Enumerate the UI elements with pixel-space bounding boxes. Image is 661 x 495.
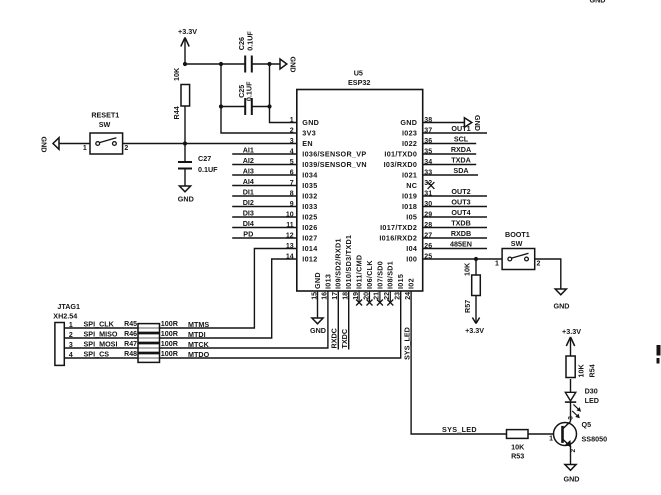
resistor R57 10K xyxy=(475,259,477,275)
IC U5 ESP32 body xyxy=(297,90,423,292)
clipped text at right edge xyxy=(657,345,661,356)
svg-text:SS8050: SS8050 xyxy=(582,435,608,444)
wires AI1-PD to pins 4-12 xyxy=(232,153,297,155)
junction R57 top xyxy=(474,257,478,261)
svg-text:R54: R54 xyxy=(588,364,597,377)
svg-text:I013: I013 xyxy=(323,274,332,289)
wire/net OUT3 xyxy=(423,206,487,208)
GND flag (pin 38) xyxy=(464,118,471,128)
svg-text:AI3: AI3 xyxy=(243,166,254,175)
svg-text:BOOT1: BOOT1 xyxy=(505,230,530,239)
wire 3V3 branch xyxy=(221,64,297,133)
svg-text:0.1UF: 0.1UF xyxy=(245,81,254,101)
svg-text:1: 1 xyxy=(290,117,294,124)
resistors R45-R48 100R xyxy=(138,324,160,333)
wire pin25 I00 to BOOT1 xyxy=(423,258,502,260)
svg-text:LED: LED xyxy=(585,396,599,405)
svg-text:PD: PD xyxy=(243,229,253,238)
svg-text:AI1: AI1 xyxy=(243,145,254,154)
switch RESET1 SW xyxy=(90,133,123,154)
wire C27 to GND xyxy=(184,169,186,187)
svg-text:485EN: 485EN xyxy=(450,240,472,249)
junction R44 top xyxy=(183,62,187,66)
wire pin18 net TXDC xyxy=(348,291,350,350)
svg-text:I019: I019 xyxy=(402,191,417,200)
svg-text:I010/SD3/TXD1: I010/SD3/TXD1 xyxy=(344,235,353,289)
svg-text:GND: GND xyxy=(178,195,194,204)
svg-text:U5: U5 xyxy=(354,69,363,78)
no-connect X pin 32 xyxy=(428,182,435,189)
switch BOOT1 SW xyxy=(502,249,535,270)
wire pin38 to GND flag xyxy=(423,122,465,124)
svg-text:1: 1 xyxy=(83,145,87,152)
svg-text:+3.3V: +3.3V xyxy=(562,327,581,336)
svg-text:2: 2 xyxy=(290,127,294,134)
svg-text:R53: R53 xyxy=(511,451,524,460)
wire/net RXDA xyxy=(423,153,477,155)
svg-text:I011/CMD: I011/CMD xyxy=(355,255,364,289)
GND flag (top caps) xyxy=(280,59,287,69)
svg-text:SW: SW xyxy=(511,239,523,248)
wire C26 right to GND flag node xyxy=(252,63,280,65)
svg-text:R45: R45 xyxy=(124,321,137,328)
svg-text:R47: R47 xyxy=(124,341,137,348)
svg-text:SPI_MOSI: SPI_MOSI xyxy=(84,340,118,349)
wire GND flag to RESET1 xyxy=(59,143,90,145)
svg-text:AI4: AI4 xyxy=(243,177,254,186)
svg-text:1: 1 xyxy=(549,436,553,443)
wire pin24 SYS_LED xyxy=(411,291,506,434)
svg-text:I027: I027 xyxy=(302,233,317,242)
capacitor C27 xyxy=(178,161,192,163)
ground (C27) xyxy=(179,186,190,192)
svg-text:SPI_CLK: SPI_CLK xyxy=(84,320,115,329)
wire/net RXDB xyxy=(423,237,487,239)
LED D30 xyxy=(565,392,576,401)
svg-text:I06/CLK: I06/CLK xyxy=(365,260,374,289)
svg-text:2: 2 xyxy=(537,261,541,268)
svg-text:100R: 100R xyxy=(161,319,179,328)
svg-text:I021: I021 xyxy=(402,170,417,179)
svg-text:I033: I033 xyxy=(302,202,317,211)
no-connect X pins 19-22 xyxy=(358,291,360,303)
svg-text:SYS_LED: SYS_LED xyxy=(403,327,412,360)
svg-text:JTAG1: JTAG1 xyxy=(57,302,80,311)
svg-text:0.1UF: 0.1UF xyxy=(198,165,218,174)
svg-text:100R: 100R xyxy=(161,339,179,348)
svg-text:I014: I014 xyxy=(302,244,317,253)
svg-text:TXDB: TXDB xyxy=(451,219,471,228)
svg-text:XH2.54: XH2.54 xyxy=(53,312,77,321)
wire/net 485EN xyxy=(423,248,487,250)
svg-text:SYS_LED: SYS_LED xyxy=(442,425,477,434)
svg-text:GND: GND xyxy=(590,0,606,5)
svg-text:SW: SW xyxy=(99,120,111,129)
svg-text:10K: 10K xyxy=(462,262,471,276)
svg-text:TXDA: TXDA xyxy=(451,156,471,165)
svg-text:D30: D30 xyxy=(585,387,598,396)
svg-text:R57: R57 xyxy=(463,300,472,313)
svg-text:10K: 10K xyxy=(511,443,525,452)
wire Q5 collector to D30 xyxy=(570,402,572,421)
svg-text:EN: EN xyxy=(302,139,313,148)
svg-text:I039/SENSOR_VN: I039/SENSOR_VN xyxy=(302,160,367,169)
svg-text:I034: I034 xyxy=(302,170,317,179)
svg-text:I09/SD2/RXD1: I09/SD2/RXD1 xyxy=(334,238,343,289)
svg-text:100R: 100R xyxy=(161,329,179,338)
svg-text:SPI_CS: SPI_CS xyxy=(84,350,110,359)
wire R44 to EN line xyxy=(184,106,186,162)
svg-text:GND: GND xyxy=(313,272,322,289)
svg-text:I05: I05 xyxy=(406,212,417,221)
svg-text:I026: I026 xyxy=(302,223,317,232)
junction EN/R44/C27 xyxy=(183,141,187,145)
ground (pin15) xyxy=(312,318,323,324)
svg-text:RXDB: RXDB xyxy=(451,229,471,238)
svg-text:I022: I022 xyxy=(402,139,417,148)
svg-text:I00: I00 xyxy=(406,254,417,263)
svg-text:I017/TXD2: I017/TXD2 xyxy=(380,223,417,232)
svg-text:I03/RXD0: I03/RXD0 xyxy=(384,160,418,169)
wire MTDI to pin14 xyxy=(64,259,296,338)
junction C25/3V3 branch top xyxy=(219,62,223,66)
svg-text:GND: GND xyxy=(310,326,326,335)
svg-text:I025: I025 xyxy=(302,212,317,221)
wire pin17 net RXDC xyxy=(337,291,339,350)
wire +3.3V node horizontal xyxy=(185,63,245,65)
svg-text:10K: 10K xyxy=(172,67,181,81)
svg-text:DI3: DI3 xyxy=(243,208,254,217)
svg-text:GND: GND xyxy=(302,118,319,127)
wire Q5 emitter to GND xyxy=(570,447,572,465)
svg-text:C27: C27 xyxy=(198,154,211,163)
wire/net OUT2 xyxy=(423,195,487,197)
svg-text:GND: GND xyxy=(473,115,482,131)
svg-text:10K: 10K xyxy=(577,364,586,378)
svg-text:I018: I018 xyxy=(402,202,417,211)
ground (BOOT1) xyxy=(555,289,566,295)
svg-text:R44: R44 xyxy=(172,106,181,119)
svg-text:RXDA: RXDA xyxy=(451,145,471,154)
svg-text:I08/SD1: I08/SD1 xyxy=(386,261,395,289)
transistor Q5 SS8050 xyxy=(554,423,577,446)
wire/net SDA xyxy=(423,174,478,176)
svg-text:OUT2: OUT2 xyxy=(451,187,470,196)
svg-text:I032: I032 xyxy=(302,191,317,200)
svg-text:DI1: DI1 xyxy=(243,187,254,196)
wire/net TXDB xyxy=(423,227,487,229)
svg-text:RESET1: RESET1 xyxy=(91,111,119,120)
svg-text:2: 2 xyxy=(124,145,128,152)
svg-text:TXDC: TXDC xyxy=(340,329,349,349)
svg-text:SDA: SDA xyxy=(453,166,468,175)
wire pin15 to GND xyxy=(317,291,319,318)
svg-text:I04: I04 xyxy=(406,244,417,253)
svg-text:GND: GND xyxy=(564,475,580,484)
svg-text:1: 1 xyxy=(495,261,499,268)
ground (Q5) xyxy=(565,465,576,471)
svg-text:GND: GND xyxy=(289,57,298,73)
svg-text:DI4: DI4 xyxy=(243,219,254,228)
svg-text:0.1UF: 0.1UF xyxy=(245,31,254,51)
resistor R54 10K xyxy=(566,356,575,378)
wire/net OUT4 xyxy=(423,216,487,218)
svg-text:SPI_MISO: SPI_MISO xyxy=(84,330,118,339)
svg-text:I07/SD0: I07/SD0 xyxy=(375,261,384,289)
svg-text:R46: R46 xyxy=(124,331,137,338)
resistor R44 10K xyxy=(181,85,190,107)
svg-text:AI2: AI2 xyxy=(243,156,254,165)
svg-text:100R: 100R xyxy=(161,349,179,358)
resistor R53 10K xyxy=(507,430,529,439)
LED light arrows xyxy=(573,404,579,410)
power flag +3.3V (below R57, pointing down) xyxy=(475,296,477,324)
svg-text:3: 3 xyxy=(290,138,294,145)
svg-text:I012: I012 xyxy=(302,254,317,263)
wire/net SCL xyxy=(423,143,477,145)
junction GND branch top xyxy=(267,62,271,66)
svg-text:GND: GND xyxy=(39,137,48,153)
svg-text:GND: GND xyxy=(554,302,570,311)
svg-text:I01/TXD0: I01/TXD0 xyxy=(384,149,417,158)
wire GND branch to pin1 xyxy=(270,64,297,123)
wire MTMS to pin13 xyxy=(64,249,296,329)
wire RESET1 to EN pin 3 xyxy=(123,143,297,145)
wire MTCK to pin16 xyxy=(64,291,328,348)
wire MTDO to pin23 xyxy=(64,291,400,358)
svg-text:3V3: 3V3 xyxy=(302,128,316,137)
wire BOOT1 to GND xyxy=(535,259,561,289)
svg-text:I035: I035 xyxy=(302,181,317,190)
svg-text:DI2: DI2 xyxy=(243,198,254,207)
svg-text:I036/SENSOR_VP: I036/SENSOR_VP xyxy=(302,149,366,158)
svg-text:GND: GND xyxy=(400,118,417,127)
wire/net OUT1 xyxy=(423,132,487,134)
svg-text:OUT1: OUT1 xyxy=(451,124,470,133)
svg-text:I02: I02 xyxy=(407,278,416,289)
junction C25 right xyxy=(267,104,271,108)
svg-text:RXDC: RXDC xyxy=(330,328,339,348)
svg-text:Q5: Q5 xyxy=(582,420,592,429)
junction C25 left xyxy=(219,104,223,108)
capacitor C25 xyxy=(244,98,246,115)
svg-text:ESP32: ESP32 xyxy=(348,78,370,87)
svg-text:SCL: SCL xyxy=(454,135,469,144)
svg-text:OUT4: OUT4 xyxy=(451,208,470,217)
capacitor C26 xyxy=(244,56,246,73)
svg-text:+3.3V: +3.3V xyxy=(465,326,484,335)
svg-text:I015: I015 xyxy=(396,274,405,289)
svg-text:I023: I023 xyxy=(402,128,417,137)
wire/net TXDA xyxy=(423,164,477,166)
svg-text:R48: R48 xyxy=(124,351,137,358)
svg-text:+3.3V: +3.3V xyxy=(178,27,197,36)
svg-text:NC: NC xyxy=(406,181,417,190)
wire R53 to Q5 base xyxy=(528,433,562,435)
svg-text:OUT3: OUT3 xyxy=(451,198,470,207)
svg-text:I016/RXD2: I016/RXD2 xyxy=(379,233,417,242)
